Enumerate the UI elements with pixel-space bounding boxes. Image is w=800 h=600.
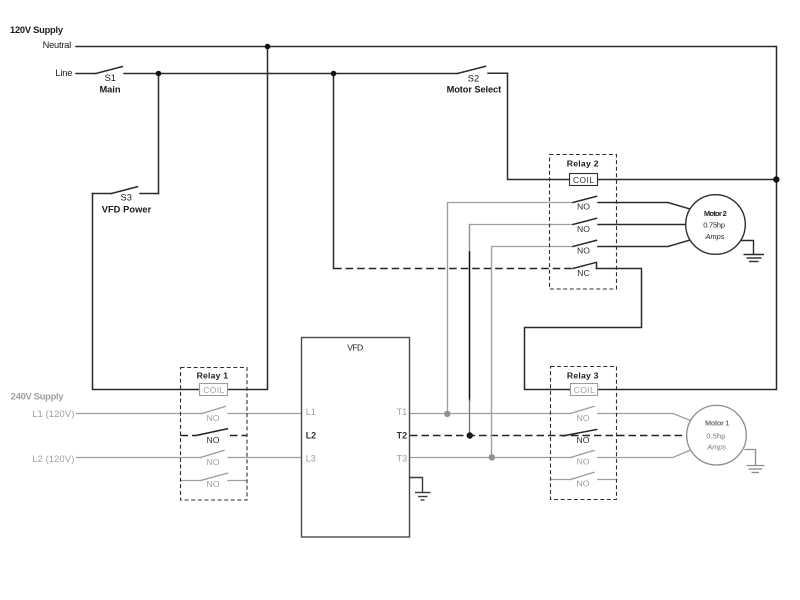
svg-text:NO: NO [577, 413, 590, 423]
svg-text:Main: Main [100, 84, 121, 94]
svg-text:NO: NO [577, 202, 590, 212]
svg-text:T1: T1 [397, 407, 408, 417]
svg-text:Motor Select: Motor Select [447, 84, 502, 94]
svg-text:L1: L1 [306, 407, 316, 417]
svg-text:S1: S1 [105, 73, 116, 83]
svg-text:Relay 3: Relay 3 [567, 371, 599, 381]
svg-text:Amps: Amps [705, 232, 725, 241]
svg-text:Relay 2: Relay 2 [567, 159, 599, 169]
svg-text:120V Supply: 120V Supply [10, 25, 64, 35]
svg-text:COIL: COIL [203, 385, 224, 395]
svg-text:NO: NO [207, 435, 220, 445]
svg-text:NC: NC [577, 268, 589, 278]
svg-text:NO: NO [577, 457, 590, 467]
svg-text:VFD: VFD [347, 342, 363, 352]
svg-text:S2: S2 [468, 73, 479, 83]
svg-text:NO: NO [207, 479, 220, 489]
svg-text:L3: L3 [306, 453, 316, 463]
svg-text:NO: NO [577, 246, 590, 256]
svg-text:0.75hp: 0.75hp [703, 220, 725, 229]
svg-text:Motor 1: Motor 1 [705, 418, 729, 427]
svg-text:240V Supply: 240V Supply [11, 392, 65, 402]
svg-text:T2: T2 [397, 430, 408, 440]
svg-text:Amps: Amps [706, 443, 726, 452]
svg-text:L2 (120V): L2 (120V) [32, 454, 74, 464]
svg-text:NO: NO [577, 478, 590, 488]
svg-text:Relay 1: Relay 1 [197, 371, 229, 381]
svg-text:VFD Power: VFD Power [102, 204, 152, 214]
svg-text:COIL: COIL [573, 175, 594, 185]
svg-text:S3: S3 [121, 193, 132, 203]
svg-text:T3: T3 [397, 453, 408, 463]
svg-text:COIL: COIL [574, 385, 595, 395]
svg-text:Neutral: Neutral [43, 40, 72, 50]
svg-text:L1 (120V): L1 (120V) [32, 409, 74, 419]
svg-text:NO: NO [577, 224, 590, 234]
svg-text:NO: NO [207, 413, 220, 423]
svg-text:0.5hp: 0.5hp [706, 431, 725, 440]
svg-text:Line: Line [55, 68, 72, 78]
svg-text:NO: NO [207, 457, 220, 467]
svg-text:L2: L2 [306, 430, 317, 440]
svg-text:NO: NO [577, 435, 590, 445]
svg-text:Motor 2: Motor 2 [704, 209, 727, 218]
